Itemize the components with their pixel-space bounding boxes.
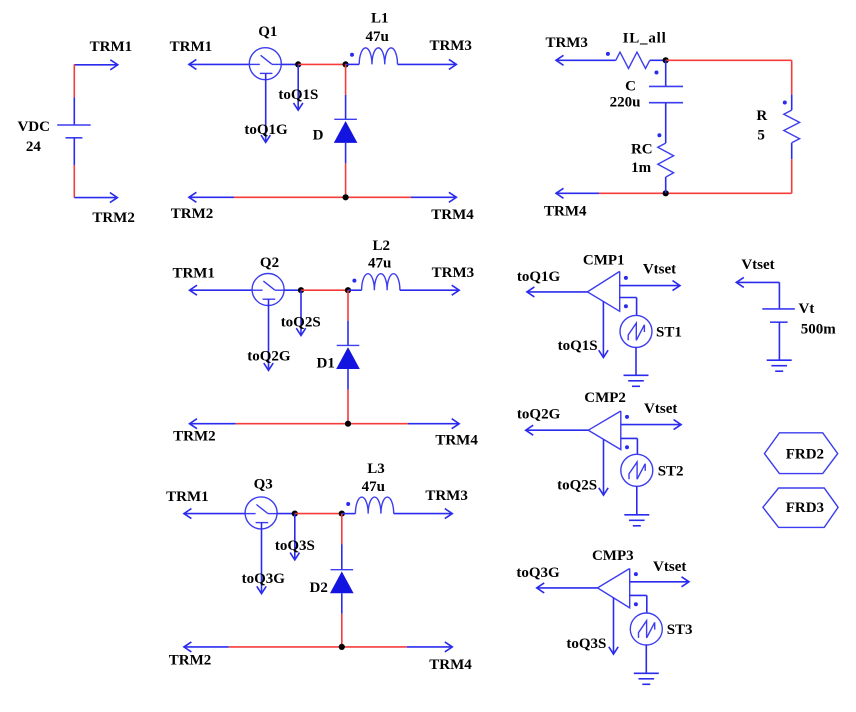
flag FRD2 <box>764 433 837 474</box>
svg-text:C: C <box>625 78 636 94</box>
node junction <box>343 61 349 67</box>
node TRM3 <box>425 488 468 504</box>
label CMP1 <box>583 252 625 268</box>
svg-text:D2: D2 <box>310 580 328 596</box>
inductor L1 dot <box>350 53 354 57</box>
wire TRM3 to IL_all <box>556 55 616 65</box>
node junction <box>343 194 349 200</box>
diode D2 <box>330 570 354 594</box>
node junction <box>298 287 304 293</box>
svg-text:TRM1: TRM1 <box>90 39 133 55</box>
label RC <box>631 142 653 158</box>
wire <box>791 143 793 194</box>
svg-text:ST1: ST1 <box>656 324 682 340</box>
label CMP3 <box>592 548 634 564</box>
switch Q2 <box>252 274 284 306</box>
label ST3 <box>667 622 693 638</box>
svg-text:TRM3: TRM3 <box>545 35 588 51</box>
svg-text:toQ2S: toQ2S <box>281 315 321 331</box>
wire <box>277 513 295 515</box>
value 220u <box>610 95 641 111</box>
wire Vt to Vtset <box>736 277 779 309</box>
wire <box>346 63 360 65</box>
svg-text:TRM4: TRM4 <box>544 203 587 219</box>
svg-text:47u: 47u <box>366 29 389 45</box>
wire toQ1S <box>294 64 303 110</box>
svg-text:toQ1G: toQ1G <box>244 122 288 138</box>
svg-text:VDC: VDC <box>17 119 50 135</box>
svg-text:toQ1G: toQ1G <box>517 269 561 285</box>
node junction <box>295 61 301 67</box>
ground <box>624 515 649 526</box>
node junction <box>663 57 669 63</box>
label ST1 <box>656 324 682 340</box>
wire TRM4 rail <box>556 188 599 198</box>
svg-text:D1: D1 <box>317 355 335 371</box>
wire <box>665 177 667 193</box>
wire VDC negative to TRM2 <box>74 193 117 203</box>
node toQ2S <box>281 315 321 331</box>
wire CMP2 output to toQ2G <box>526 425 589 435</box>
wire <box>345 64 347 119</box>
sensor IL_all dot <box>606 52 610 56</box>
svg-text:toQ3S: toQ3S <box>275 538 315 554</box>
wire <box>348 289 362 291</box>
label C <box>625 78 636 94</box>
wire toQ3S <box>609 598 618 654</box>
wire toQ1S <box>599 302 608 358</box>
node junction <box>339 644 345 650</box>
sawtooth source ST2 <box>621 454 653 486</box>
label L1 <box>371 11 389 27</box>
label D2 <box>310 580 328 596</box>
svg-text:24: 24 <box>26 139 42 155</box>
node TRM4 <box>544 203 587 219</box>
label R <box>756 108 767 124</box>
node toQ3S <box>566 636 606 652</box>
node toQ3S <box>275 538 315 554</box>
label IL_all <box>623 31 667 47</box>
svg-text:toQ3S: toQ3S <box>566 636 606 652</box>
pin dot <box>624 276 628 280</box>
node toQ3G <box>516 565 560 581</box>
wire TRM1 to Q1 <box>189 59 249 69</box>
node TRM2 <box>171 206 214 222</box>
wire <box>599 192 792 194</box>
wire <box>345 143 347 197</box>
svg-text:toQ1S: toQ1S <box>558 338 598 354</box>
svg-text:CMP2: CMP2 <box>584 390 626 406</box>
svg-text:toQ2S: toQ2S <box>557 477 597 493</box>
wire CMP3 input to Vtset <box>630 577 689 587</box>
label L2 <box>373 238 391 254</box>
svg-text:47u: 47u <box>368 255 391 271</box>
node junction <box>292 510 298 516</box>
node TRM4 <box>431 207 474 223</box>
node junction <box>339 510 345 516</box>
wire toQ2S <box>296 290 305 335</box>
node toQ2G <box>517 407 561 423</box>
ground <box>767 360 792 371</box>
current sensor IL_all <box>616 52 650 68</box>
label VDC <box>17 119 50 135</box>
node Vtset <box>741 257 774 273</box>
svg-text:ST2: ST2 <box>658 463 684 479</box>
svg-text:L2: L2 <box>373 238 391 254</box>
wire TRM2 rail <box>190 419 460 429</box>
node TRM3 <box>429 38 472 54</box>
label Q1 <box>258 24 277 40</box>
wire CMP3 output to toQ3G <box>537 583 598 593</box>
resistor RC 1m <box>658 143 674 177</box>
value 47u <box>362 479 385 495</box>
resistor R dot <box>783 101 787 105</box>
svg-text:TRM3: TRM3 <box>425 488 468 504</box>
wire TRM1 to Q2 <box>190 285 253 295</box>
svg-text:TRM2: TRM2 <box>171 206 214 222</box>
node toQ1S <box>278 87 318 103</box>
sawtooth source ST1 <box>620 315 652 347</box>
value 24 <box>26 139 42 155</box>
svg-text:CMP3: CMP3 <box>592 548 634 564</box>
svg-text:IL_all: IL_all <box>623 31 667 47</box>
node TRM1 <box>90 39 133 55</box>
node toQ1G <box>244 122 288 138</box>
wire <box>650 59 666 61</box>
label Q2 <box>260 255 279 271</box>
wire L2 to TRM3 <box>400 285 459 295</box>
capacitor C 220u <box>649 86 683 102</box>
label D1 <box>317 355 335 371</box>
svg-text:TRM3: TRM3 <box>429 38 472 54</box>
node TRM4 <box>435 433 478 449</box>
resistor R 5 <box>784 110 800 143</box>
inductor L2 dot <box>352 279 356 283</box>
wire <box>301 289 348 291</box>
svg-text:toQ2G: toQ2G <box>247 348 291 364</box>
svg-text:toQ1S: toQ1S <box>278 87 318 103</box>
capacitor C dot <box>655 71 659 75</box>
ground <box>634 673 659 684</box>
node TRM2 <box>173 428 216 444</box>
wire <box>341 593 343 647</box>
svg-text:FRD3: FRD3 <box>786 500 824 516</box>
svg-text:47u: 47u <box>362 479 385 495</box>
wire L1 to TRM3 <box>398 59 457 69</box>
wire <box>791 60 793 110</box>
pin dot <box>624 304 628 308</box>
value 47u <box>366 29 389 45</box>
wire toQ1G <box>261 73 270 142</box>
inductor L2 47u <box>362 274 400 291</box>
pin dot <box>625 415 629 419</box>
node toQ3G <box>242 571 286 587</box>
node TRM2 <box>92 210 135 226</box>
comparator CMP3 <box>598 569 630 608</box>
label L3 <box>367 461 385 477</box>
pin dot <box>634 572 638 576</box>
node toQ1S <box>558 338 598 354</box>
pin dot <box>634 602 638 606</box>
svg-text:L1: L1 <box>371 11 389 27</box>
svg-text:TRM4: TRM4 <box>431 207 474 223</box>
svg-text:Vt: Vt <box>798 301 814 317</box>
label Q3 <box>254 476 273 492</box>
svg-text:TRM4: TRM4 <box>435 433 478 449</box>
svg-text:TRM4: TRM4 <box>429 657 472 673</box>
svg-text:D: D <box>313 128 324 144</box>
wire CMP1 output to toQ1G <box>527 287 588 297</box>
wire <box>665 60 667 86</box>
wire <box>281 63 298 65</box>
wire toQ2S <box>599 439 608 495</box>
value 500m <box>801 321 837 337</box>
svg-text:500m: 500m <box>801 321 837 337</box>
wire <box>636 486 638 515</box>
svg-text:Vtset: Vtset <box>741 257 774 273</box>
diode D <box>334 119 358 143</box>
wire <box>73 64 75 125</box>
wire <box>73 138 75 198</box>
wire toQ3S <box>290 514 299 560</box>
svg-text:5: 5 <box>757 128 765 144</box>
svg-text:TRM1: TRM1 <box>172 266 215 282</box>
wire <box>295 513 342 515</box>
ground <box>624 375 649 386</box>
node junction <box>345 421 351 427</box>
node TRM4 <box>429 657 472 673</box>
flag FRD3 <box>763 488 838 527</box>
svg-text:FRD2: FRD2 <box>786 447 824 463</box>
wire <box>666 59 792 61</box>
inductor L1 47u <box>359 48 397 65</box>
svg-text:Vtset: Vtset <box>653 559 686 575</box>
wire <box>298 63 345 65</box>
wire toQ3G <box>257 523 266 594</box>
dc source Vt 500m <box>762 309 795 322</box>
node TRM3 <box>545 35 588 51</box>
svg-text:1m: 1m <box>631 160 652 176</box>
value 5 <box>757 128 765 144</box>
node junction <box>663 190 669 196</box>
label D <box>313 128 324 144</box>
svg-text:TRM2: TRM2 <box>169 653 212 669</box>
wire CMP1 input to Vtset <box>620 281 680 291</box>
wire CMP1 input to ST1 <box>620 298 637 316</box>
svg-text:TRM1: TRM1 <box>170 39 213 55</box>
wire CMP3 input to ST3 <box>630 595 647 613</box>
svg-text:CMP1: CMP1 <box>583 252 625 268</box>
inductor L3 dot <box>346 502 350 506</box>
svg-text:R: R <box>756 108 767 124</box>
label CMP2 <box>584 390 626 406</box>
wire <box>347 369 349 424</box>
svg-text:toQ3G: toQ3G <box>516 565 560 581</box>
wire <box>645 645 647 673</box>
svg-text:TRM3: TRM3 <box>432 265 475 281</box>
dc source VDC 24 <box>57 125 90 138</box>
svg-text:Vtset: Vtset <box>644 401 677 417</box>
wire <box>342 513 356 515</box>
label Vt <box>798 301 814 317</box>
node TRM1 <box>166 489 209 505</box>
svg-text:ST3: ST3 <box>667 622 693 638</box>
value 47u <box>368 255 391 271</box>
svg-text:TRM2: TRM2 <box>173 428 216 444</box>
wire <box>347 290 349 345</box>
svg-text:TRM2: TRM2 <box>92 210 135 226</box>
node TRM3 <box>432 265 475 281</box>
node toQ1G <box>517 269 561 285</box>
wire <box>665 103 667 143</box>
switch Q3 <box>245 497 277 529</box>
resistor RC dot <box>657 133 661 137</box>
wire CMP2 input to ST2 <box>621 438 638 454</box>
wire <box>284 289 301 291</box>
svg-text:Q2: Q2 <box>260 255 279 271</box>
wire VDC positive to TRM1 <box>74 60 118 70</box>
node toQ2G <box>247 348 291 364</box>
svg-text:Q1: Q1 <box>258 24 277 40</box>
wire TRM2 rail <box>189 192 457 202</box>
switch Q1 <box>249 48 281 80</box>
comparator CMP2 <box>588 411 621 450</box>
node Vtset <box>644 401 677 417</box>
value 1m <box>631 160 652 176</box>
pin dot <box>625 445 629 449</box>
svg-text:TRM1: TRM1 <box>166 489 209 505</box>
wire TRM2 rail <box>184 642 452 652</box>
node TRM2 <box>169 653 212 669</box>
svg-text:Q3: Q3 <box>254 476 273 492</box>
wire <box>635 347 637 375</box>
wire toQ2G <box>264 299 273 370</box>
svg-text:toQ3G: toQ3G <box>242 571 286 587</box>
wire <box>341 514 343 570</box>
diode D1 <box>336 345 360 369</box>
node junction <box>345 287 351 293</box>
label ST2 <box>658 463 684 479</box>
node Vtset <box>643 261 676 277</box>
sawtooth source ST3 <box>630 613 662 645</box>
svg-text:RC: RC <box>631 142 653 158</box>
node toQ2S <box>557 477 597 493</box>
svg-text:220u: 220u <box>610 95 641 111</box>
svg-text:L3: L3 <box>367 461 385 477</box>
wire <box>778 322 780 360</box>
wire CMP2 input to Vtset <box>621 420 681 430</box>
node Vtset <box>653 559 686 575</box>
wire TRM1 to Q3 <box>184 509 245 519</box>
inductor L3 47u <box>355 497 393 514</box>
node TRM1 <box>172 266 215 282</box>
wire L3 to TRM3 <box>394 509 453 519</box>
node TRM1 <box>170 39 213 55</box>
comparator CMP1 <box>587 271 619 311</box>
svg-text:toQ2G: toQ2G <box>517 407 561 423</box>
svg-text:Vtset: Vtset <box>643 261 676 277</box>
